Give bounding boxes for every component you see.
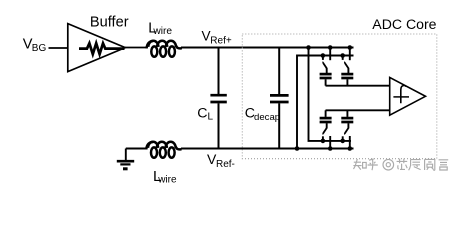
wire VBG to buffer input bbox=[49, 47, 68, 49]
bottom DAC cap 1 with switches bbox=[320, 110, 333, 151]
label Lwire (top) bbox=[148, 20, 172, 37]
svg-text:Ref-: Ref- bbox=[216, 159, 235, 170]
bottom bus to comparator bbox=[326, 109, 390, 111]
svg-text:wire: wire bbox=[157, 174, 177, 183]
svg-text:V: V bbox=[202, 29, 211, 44]
svg-text:ADC Core: ADC Core bbox=[372, 16, 436, 32]
node VBG label bbox=[23, 36, 47, 54]
capacitor Cdecap bbox=[270, 48, 289, 149]
resistor inside buffer bbox=[79, 43, 125, 54]
svg-text:L: L bbox=[208, 112, 214, 123]
node VRef+ label bbox=[202, 29, 232, 47]
comparator U2 bbox=[390, 77, 426, 115]
label Cdecap bbox=[245, 106, 280, 123]
net Ref+ feed: vertical wire + second bottom rail bbox=[306, 45, 351, 141]
capacitor CL bbox=[210, 48, 226, 149]
bottom rail wire ground to inductor bbox=[126, 148, 147, 150]
top rail wire VRef+ bbox=[181, 47, 354, 49]
inductor Lwire (top) bbox=[147, 41, 182, 57]
net Ref- feed: vertical wire + second top rail bbox=[295, 56, 354, 151]
inductor Lwire (bottom) bbox=[146, 142, 181, 158]
bottom DAC cap 2 with switches bbox=[340, 110, 353, 151]
label Lwire (bottom) bbox=[153, 168, 177, 185]
ADC Core dashed boundary box bbox=[242, 34, 436, 159]
svg-text:Buffer: Buffer bbox=[90, 14, 129, 30]
label CL bbox=[197, 106, 213, 123]
svg-text:BG: BG bbox=[32, 43, 47, 54]
top DAC cap 2 with switches bbox=[340, 45, 353, 85]
op-amp buffer U1 bbox=[68, 24, 125, 72]
svg-text:wire: wire bbox=[152, 26, 172, 37]
ground bbox=[117, 149, 134, 171]
wire buffer output to top inductor bbox=[125, 47, 147, 49]
node VRef- label bbox=[207, 151, 235, 170]
svg-text:decap: decap bbox=[254, 112, 280, 123]
svg-text:C: C bbox=[197, 106, 207, 122]
top bus to comparator bbox=[326, 85, 390, 87]
bottom rail wire VRef- bbox=[181, 148, 354, 150]
watermark zhihu bbox=[353, 159, 448, 171]
top DAC cap 1 with switches bbox=[320, 45, 333, 85]
svg-text:Ref+: Ref+ bbox=[210, 36, 232, 47]
